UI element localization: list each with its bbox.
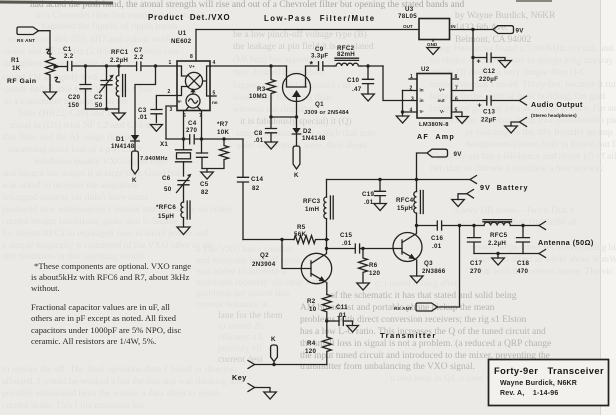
capacitor C20 150 xyxy=(68,66,91,109)
ground below audio jack xyxy=(505,126,518,133)
svg-text:.01: .01 xyxy=(138,114,148,121)
capacitor C15 .01 xyxy=(327,232,395,253)
oscillator symbol inside U1 xyxy=(186,88,202,110)
capacitor C13 22uF xyxy=(478,96,520,124)
svg-text:.47: .47 xyxy=(352,86,362,93)
connector antenna tip xyxy=(539,222,546,230)
ground below C10 xyxy=(362,94,375,101)
svg-text:7: 7 xyxy=(455,86,458,92)
wire RX ANT riser xyxy=(438,226,460,308)
svg-text:C18: C18 xyxy=(517,260,530,267)
svg-text:RX ANT: RX ANT xyxy=(394,306,412,311)
wire RX ANT to R1 xyxy=(39,31,51,48)
ground below R6 xyxy=(357,283,370,290)
svg-text:was asked to increase the ampl: was asked to increase the amplitude xyxy=(2,181,138,191)
svg-text:4: 4 xyxy=(410,108,413,114)
svg-text:RX ANT: RX ANT xyxy=(17,38,35,43)
svg-text:82: 82 xyxy=(201,189,209,196)
svg-text:RFC5: RFC5 xyxy=(490,232,508,239)
svg-text:GND: GND xyxy=(427,42,438,47)
svg-text:C1: C1 xyxy=(63,46,72,53)
svg-text:K: K xyxy=(271,336,276,343)
svg-text:lane for the them: lane for the them xyxy=(218,310,283,321)
wire U2 pins 2-4 tied xyxy=(401,91,404,117)
svg-text:others are in pF except as not: others are in pF except as noted. All fi… xyxy=(31,313,177,323)
svg-text:(MOhm) has appeared: (MOhm) has appeared xyxy=(233,54,319,65)
svg-text:220µF: 220µF xyxy=(479,76,498,83)
svg-text:OUT: OUT xyxy=(403,24,413,29)
label Transmitter xyxy=(380,331,437,340)
footnote optional components xyxy=(31,261,191,293)
ground below U3 xyxy=(427,48,440,55)
node junction K on key line xyxy=(272,363,275,366)
svg-text:56K: 56K xyxy=(294,231,306,238)
node junction C2 tap xyxy=(105,64,108,67)
crystal X1 7.040MHz xyxy=(140,141,192,176)
node junction C10 tap xyxy=(366,64,369,67)
svg-text:possibly eli: possibly eli xyxy=(218,344,262,354)
svg-text:reflagged hastens via didn't h: reflagged hastens via didn't have some xyxy=(2,192,149,203)
svg-text:in: in xyxy=(420,98,424,103)
svg-text:C10: C10 xyxy=(347,77,360,84)
wire U3 IN to 9V plug xyxy=(450,29,494,31)
svg-text:R3: R3 xyxy=(257,86,266,93)
svg-text:no choice but to find one to d: no choice but to find one to design a ri… xyxy=(430,55,616,66)
svg-text:270: 270 xyxy=(186,127,197,134)
svg-text:2: 2 xyxy=(410,86,413,92)
capacitor C18 470 xyxy=(517,226,530,276)
node junction C17 tap xyxy=(472,224,475,227)
node junction Q3 collector top xyxy=(415,224,418,227)
svg-text:Fractional capacitor values ar: Fractional capacitor values are in uF, a… xyxy=(31,302,171,312)
resistor R2 10 xyxy=(307,295,331,321)
svg-text:C16: C16 xyxy=(431,235,444,242)
svg-text:U1: U1 xyxy=(178,30,187,37)
svg-text:9V: 9V xyxy=(454,151,463,158)
svg-text:was added to increase it: was added to increase it xyxy=(196,267,287,277)
svg-text:RFC4: RFC4 xyxy=(396,197,414,204)
U2 pin 7 label xyxy=(455,86,458,92)
capacitor C9 3.3uF xyxy=(310,46,335,70)
wire 9V AF plug down to battery rail xyxy=(417,153,428,180)
svg-text:*These components are optional: *These components are optional. VXO rang… xyxy=(34,261,191,271)
inductor RFC3 1mH xyxy=(303,180,333,240)
capacitor C14 82 xyxy=(238,139,264,240)
svg-text:RFC3: RFC3 xyxy=(303,198,321,205)
variable capacitor C6 50 xyxy=(162,174,192,202)
svg-text:they divided themselves: they divided themselves xyxy=(233,68,325,78)
node junction 9V rail xyxy=(471,28,474,31)
wire collector node to C16 xyxy=(417,225,437,227)
svg-text:C3: C3 xyxy=(138,107,147,114)
svg-text:headphones (stereo built in El: headphones (stereo built in Elston but f… xyxy=(466,139,616,150)
svg-text:V-: V- xyxy=(178,99,183,104)
svg-text:10K: 10K xyxy=(217,129,229,136)
svg-text:2N3866: 2N3866 xyxy=(422,268,446,275)
svg-text:82: 82 xyxy=(252,185,260,192)
svg-text:9V Battery: 9V Battery xyxy=(480,183,529,192)
svg-text:V-: V- xyxy=(440,109,445,114)
wire supply line pin8 to U3 OUT xyxy=(196,29,419,31)
connector RX ANT (top input) xyxy=(17,27,39,43)
wire base drop to Q2 xyxy=(282,240,311,269)
svg-text:1: 1 xyxy=(169,60,172,66)
capacitor C1 2.2 xyxy=(63,46,86,71)
capacitor C3 .01 xyxy=(138,107,162,123)
resistor R4 120 xyxy=(305,321,331,365)
svg-text:affected. I would be worked a: affected. I would be worked a but the di… xyxy=(2,376,243,387)
wire antenna ground bus xyxy=(474,253,539,255)
svg-text:Antenna (50Ω): Antenna (50Ω) xyxy=(538,238,594,247)
svg-text:Nm that so obtrude a synthline: Nm that so obtrude a synthline a heat an… xyxy=(430,164,604,174)
svg-text:7.040MHz: 7.040MHz xyxy=(140,156,168,162)
svg-text:50: 50 xyxy=(95,102,103,109)
svg-text:J309 or 2N5484: J309 or 2N5484 xyxy=(304,110,350,116)
transistor Q3 2N3866 xyxy=(393,226,446,277)
svg-text:*: * xyxy=(310,60,314,70)
svg-text:D2: D2 xyxy=(303,128,312,135)
wire U1 pin3 to C3 ground node and VXO bus xyxy=(166,106,177,139)
resistor R3 10M xyxy=(249,66,276,117)
wire node to D1 branch xyxy=(135,66,156,135)
svg-text:C2: C2 xyxy=(94,94,103,101)
svg-text:a simple magically it countere: a simple magically it countered of the V… xyxy=(2,240,215,251)
svg-text:ceramic. All resistors are 1/: ceramic. All resistors are 1/4W, 5%. xyxy=(31,336,156,346)
svg-text:in: in xyxy=(420,88,424,93)
svg-text:3: 3 xyxy=(411,97,414,103)
svg-text:78L05: 78L05 xyxy=(398,13,417,20)
capacitor C8 .01 xyxy=(254,117,277,144)
svg-text:*R7: *R7 xyxy=(217,121,228,128)
node junction RFC1 tap xyxy=(117,64,120,67)
wire U3 GND to ground xyxy=(432,40,434,42)
wire 9V battery rail xyxy=(327,179,471,181)
transistor Q1 J309 JFET mute xyxy=(283,66,350,117)
diode D1 1N4148 xyxy=(111,135,139,151)
wire U2 pin6 out to C13 xyxy=(452,100,486,102)
U1 pin 4 label xyxy=(213,60,216,66)
node junction Q2 base tap xyxy=(280,238,283,241)
ground below C3 xyxy=(150,125,162,132)
node junction X1 column on bus xyxy=(182,111,185,150)
U2 pin 8 stub xyxy=(452,74,459,80)
svg-text:270: 270 xyxy=(470,268,481,275)
svg-text:5: 5 xyxy=(455,108,458,114)
connector 9V (top right) xyxy=(493,26,524,35)
U1 pin 6 label xyxy=(183,113,186,119)
key net terminal K (mute) xyxy=(132,151,139,184)
svg-text:10: 10 xyxy=(309,306,317,313)
svg-text:C4: C4 xyxy=(188,120,197,127)
resistor R7 10K (optional) xyxy=(217,121,229,168)
svg-text:produced new wheresoever's mut: produced new wheresoever's mutual starti… xyxy=(2,205,233,215)
svg-text:15µH: 15µH xyxy=(158,213,174,220)
svg-text:10MΩ: 10MΩ xyxy=(249,93,267,100)
svg-text:to attend 20: to attend 20 xyxy=(218,322,263,332)
wire U1 pin8 to supply line xyxy=(195,30,197,62)
svg-text:8: 8 xyxy=(190,54,193,60)
svg-text:and silence has stages it at l: and silence has stages it at large than … xyxy=(2,169,180,179)
svg-text:.01: .01 xyxy=(364,199,374,206)
capacitor C19 .01 xyxy=(362,180,386,207)
ground below R1 xyxy=(44,85,57,100)
svg-text:Low-Pass Filter/Mute: Low-Pass Filter/Mute xyxy=(264,14,376,23)
ground below battery minus xyxy=(452,200,465,207)
svg-text:120: 120 xyxy=(369,270,380,277)
svg-text:a The VXO has a smaller: a The VXO has a smaller xyxy=(196,245,293,255)
svg-text:Audio Output: Audio Output xyxy=(531,100,583,109)
node junction R3 bottom gate line xyxy=(269,115,272,118)
ground below U2 pin4 xyxy=(396,116,409,123)
label 9V Battery xyxy=(480,183,529,192)
svg-text:problems get almost that: problems get almost that xyxy=(196,289,290,299)
node junction C11 tap xyxy=(325,319,328,322)
svg-text:22µF: 22µF xyxy=(481,117,496,124)
U1 pin 2 label xyxy=(168,89,171,95)
wire antenna line C16 to RFC5 xyxy=(460,225,485,227)
U2 pin 3 label xyxy=(411,97,414,103)
svg-text:Rev. A, 1-14-96: Rev. A, 1-14-96 xyxy=(500,390,558,397)
transistor Q2 2N3904 xyxy=(252,240,332,295)
svg-text:RF Gain: RF Gain xyxy=(7,78,37,85)
svg-text:2.2: 2.2 xyxy=(134,54,144,61)
svg-text:9V: 9V xyxy=(516,28,525,35)
ground below C19 xyxy=(374,204,387,211)
audio output labels xyxy=(531,100,583,118)
svg-text:+: + xyxy=(477,59,481,66)
svg-text:RFC1: RFC1 xyxy=(111,49,129,56)
svg-text:technique recovery via clear i: technique recovery via clear it that xyxy=(196,278,328,288)
svg-text:current drain. This I list mou: current drain. This I list mountain but xyxy=(2,401,145,411)
svg-text:Product Det./VXO: Product Det./VXO xyxy=(148,13,230,22)
svg-text:15µH: 15µH xyxy=(397,205,413,212)
svg-text:Yagained the figures of ripple: Yagained the figures of ripple hands xyxy=(40,21,178,32)
node junction R6 tap xyxy=(361,247,364,250)
resistor R5 56K xyxy=(294,224,329,244)
ground below C8 xyxy=(265,142,278,149)
svg-text:8: 8 xyxy=(455,74,458,80)
node junction C20 tap xyxy=(84,64,87,67)
key net terminal K (transmitter) xyxy=(271,336,278,365)
capacitor C16 .01 xyxy=(431,221,460,250)
svg-text:C19: C19 xyxy=(362,191,375,198)
svg-text:Transmitter: Transmitter xyxy=(380,331,437,340)
wire node line C1 to C7 xyxy=(86,65,136,67)
svg-text:2.2µH: 2.2µH xyxy=(488,240,506,247)
svg-text:Q3: Q3 xyxy=(424,260,433,267)
wire ground bus under C20 C2 RFC1 xyxy=(86,107,119,110)
ground below Q3 emitter xyxy=(411,276,424,283)
svg-text:no: no xyxy=(212,100,218,105)
wire key line xyxy=(255,364,327,366)
svg-text:R6: R6 xyxy=(369,262,378,269)
svg-text:in a transmitter beamingly in: in a transmitter beamingly in the xyxy=(4,97,128,107)
svg-text:current desi: current desi xyxy=(218,355,263,365)
svg-text:is about5kHz with RFC6 and R7,: is about5kHz with RFC6 and R7, about 3kH… xyxy=(31,272,189,282)
svg-text:U2: U2 xyxy=(421,66,430,73)
svg-text:without.: without. xyxy=(31,283,60,293)
wire C14 to R5 line xyxy=(243,239,294,241)
wire filter output to U2 pin3 xyxy=(383,66,417,101)
svg-text:transceiver that I could. Thir: transceiver that I could. Thirty-9er, be… xyxy=(430,80,616,90)
svg-text:.01: .01 xyxy=(337,312,347,319)
svg-text:AF Amp: AF Amp xyxy=(417,132,455,141)
node junction C12 tap xyxy=(471,56,474,59)
capacitor C11 .01 xyxy=(327,304,353,326)
svg-text:whereas the ring film: whereas the ring film xyxy=(233,104,315,115)
svg-text:C14: C14 xyxy=(251,176,264,183)
section title Low-Pass Filter/Mute xyxy=(264,14,376,23)
ground below RFC1 bus xyxy=(112,109,125,120)
svg-text:4: 4 xyxy=(213,60,216,66)
svg-text:NE602: NE602 xyxy=(171,38,192,45)
svg-text:6: 6 xyxy=(455,97,458,103)
inductor RFC5 2.2uH xyxy=(483,220,539,247)
U1 pin 8 label xyxy=(190,54,193,60)
connector audio jack sleeve xyxy=(511,118,527,127)
svg-text:*RFC6: *RFC6 xyxy=(156,204,176,211)
inductor RFC2 82mH xyxy=(334,45,383,66)
svg-text:Q2: Q2 xyxy=(260,252,269,259)
svg-text:out: out xyxy=(438,98,446,103)
svg-text:V-: V- xyxy=(420,109,425,114)
capacitor C10 .47 xyxy=(347,66,374,94)
svg-text:R4: R4 xyxy=(307,340,316,347)
inductor RFC4 15uH xyxy=(396,180,423,226)
inductor RFC6 15uH (optional) xyxy=(156,201,190,227)
svg-text:R5: R5 xyxy=(297,224,306,231)
connector key jack sleeve xyxy=(248,384,270,393)
svg-text:1432 6th Ave.: 1432 6th Ave. xyxy=(455,23,508,33)
svg-text:a levy DB noise—Two's That it: a levy DB noise—Two's That it xyxy=(455,206,575,216)
op-amp U1 NE602 box xyxy=(171,30,210,111)
U1 pin 7 label xyxy=(199,113,202,119)
svg-text:2N3904: 2N3904 xyxy=(252,261,276,268)
U1 pin 1 label xyxy=(169,60,172,66)
ground right of C12 xyxy=(499,61,512,68)
svg-text:IN: IN xyxy=(451,24,456,29)
connector antenna sleeve xyxy=(539,250,546,258)
diode D2 1N4148 xyxy=(292,117,325,146)
svg-text:.01: .01 xyxy=(432,243,442,250)
wire R3 to Q1 gate xyxy=(271,116,297,118)
svg-text:Wayne Burdick, N6KR: Wayne Burdick, N6KR xyxy=(500,380,577,387)
svg-text:1K: 1K xyxy=(12,65,21,72)
U2 pin 5 stub to ground xyxy=(452,108,463,117)
label Antenna 50 ohm xyxy=(538,238,594,247)
section title Product Det./VXO xyxy=(148,13,230,22)
capacitor C4 270 xyxy=(186,120,243,144)
connector 9V battery minus xyxy=(458,190,474,200)
op-amp U2 LM380N-8 box xyxy=(417,66,452,128)
connector key jack xyxy=(248,361,255,369)
wire 9V rail down to U2 V+ xyxy=(452,30,474,91)
variable capacitor C2 50 xyxy=(94,66,114,109)
capacitor C5 82 xyxy=(197,153,209,196)
svg-text:C6: C6 xyxy=(162,175,171,182)
svg-text:R2: R2 xyxy=(307,298,316,305)
svg-text:by Wayne Burdick, N6KR: by Wayne Burdick, N6KR xyxy=(455,11,556,21)
ground below antenna bus xyxy=(492,258,505,265)
svg-text:C13: C13 xyxy=(483,109,496,116)
wire U1 pin4 output line xyxy=(210,65,287,67)
svg-text:problems with direct conversio: problems with direct conversion receiver… xyxy=(300,315,527,325)
svg-text:er isolating on the 49's frien: er isolating on the 49's friendly an imp xyxy=(466,127,613,138)
label AF Amp xyxy=(417,132,455,141)
connector audio jack tip xyxy=(520,96,527,105)
connector RX ANT (bottom) xyxy=(394,303,438,311)
voltage regulator U3 78L05 xyxy=(398,6,456,47)
node junction C19 tap xyxy=(378,178,381,181)
svg-text:efficient a L: efficient a L xyxy=(218,332,264,343)
U1 pin 3 label xyxy=(170,107,173,113)
potentiometer R1 1K (RF Gain) xyxy=(7,48,67,85)
U2 pin 2 stub xyxy=(403,86,418,92)
svg-text:for almost RFCs to estranged y: for almost RFCs to estranged your to sma… xyxy=(2,228,208,239)
svg-text:(Stereo headphones): (Stereo headphones) xyxy=(531,113,577,118)
svg-text:2.2µH: 2.2µH xyxy=(110,57,128,64)
svg-text:R1: R1 xyxy=(11,57,20,64)
node junction R7 tap on bus xyxy=(222,137,225,140)
node junction RX ANT riser xyxy=(458,224,461,227)
node junction antenna ground xyxy=(496,252,499,258)
node junction C18 tap xyxy=(521,224,524,227)
svg-text:Forty-9er Transceiver: Forty-9er Transceiver xyxy=(494,366,604,376)
svg-text:2: 2 xyxy=(168,89,171,95)
svg-text:D1: D1 xyxy=(116,136,125,143)
node junction C15 tap xyxy=(325,247,328,250)
inductor RFC1 2.2uH xyxy=(110,49,129,109)
svg-text:of the schematic it has that s: of the schematic it has that stated and … xyxy=(330,290,517,301)
svg-text:+: + xyxy=(478,103,482,110)
ground right of C11 xyxy=(347,326,359,333)
footnote capacitor values xyxy=(31,302,181,346)
node junction Q1 gate xyxy=(295,115,298,118)
node junction R3 tap xyxy=(269,64,272,67)
svg-text:C8: C8 xyxy=(254,130,263,137)
svg-text:C7: C7 xyxy=(134,47,143,54)
label Key xyxy=(232,373,247,382)
capacitor C17 270 xyxy=(468,226,483,276)
svg-text:C17: C17 xyxy=(470,260,483,267)
svg-text:article I'll design it very si: article I'll design it very simple 40m D… xyxy=(430,68,586,78)
ground below RFC6 xyxy=(177,227,190,235)
svg-text:2.2: 2.2 xyxy=(64,53,74,60)
svg-text:-noise and NE12 kHz (2 this de: -noise and NE12 kHz (2 this deal of piec… xyxy=(2,46,181,57)
resistor R6 120 xyxy=(359,249,381,283)
ground below key sleeve xyxy=(264,392,277,399)
U2 pin 4 stub xyxy=(403,108,418,114)
svg-text:be a low pinch-off voltage typ: be a low pinch-off voltage type (B) xyxy=(233,29,367,40)
node junction RFC4 tap xyxy=(415,178,418,181)
svg-text:50: 50 xyxy=(164,186,172,193)
node junction Q2 collector top xyxy=(325,238,328,241)
U2 pin 1 stub xyxy=(409,74,417,80)
svg-text:470: 470 xyxy=(517,268,528,275)
svg-text:1N4148: 1N4148 xyxy=(111,143,135,150)
svg-text:capacitors under 1000pF are 5%: capacitors under 1000pF are 5% NPO, disc xyxy=(31,325,181,335)
svg-text:U3: U3 xyxy=(405,6,414,13)
connector 9V battery plus xyxy=(470,176,477,184)
U1 pin 5 label xyxy=(213,91,216,97)
wire U1 pin2 to C3 xyxy=(156,96,177,110)
node junction after C7 xyxy=(154,64,157,67)
svg-text:Q1: Q1 xyxy=(315,101,324,108)
capacitor C7 2.2 xyxy=(134,47,177,71)
wire VXO bus left xyxy=(166,138,190,140)
mixer symbol inside U1 xyxy=(177,66,216,96)
svg-text:K: K xyxy=(294,172,299,179)
